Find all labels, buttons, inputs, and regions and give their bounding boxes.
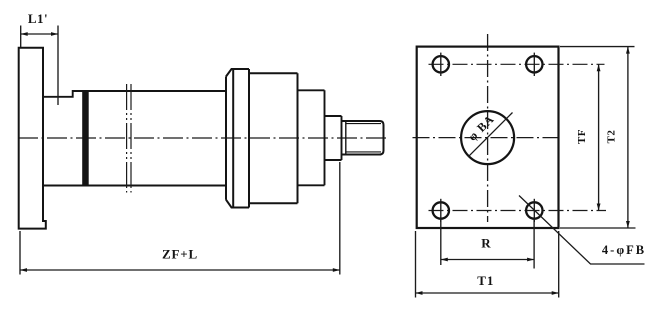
dimension T1 (416, 231, 559, 298)
seal band (solid black) (82, 90, 89, 186)
stroke position dashed lines (127, 84, 131, 193)
dimension L1' (21, 26, 58, 106)
bore diameter leader line (468, 113, 512, 157)
dimension TF (598, 64, 600, 210)
svg-text:4-φFB: 4-φFB (602, 243, 646, 257)
svg-text:T2: T2 (606, 130, 618, 144)
svg-text:L1': L1' (28, 11, 48, 26)
bolt hole bottom-left (433, 199, 449, 222)
dimension R (441, 219, 534, 269)
cylinder head collar (226, 69, 249, 208)
bore circle φBA (461, 111, 514, 164)
leader line for bolt holes (519, 196, 645, 265)
head main block (249, 73, 298, 203)
plate horizontal centerline (413, 137, 563, 139)
threaded rod end (342, 121, 384, 155)
svg-text:TF: TF (576, 129, 588, 144)
rod shoulder (325, 116, 342, 160)
flange plate outline (417, 47, 559, 228)
head front boss (298, 90, 325, 185)
bolt hole top-left (433, 53, 449, 76)
bolt hole centerline top (429, 63, 605, 65)
dimension ZF+L (20, 162, 340, 275)
svg-text:ZF+L: ZF+L (162, 247, 198, 262)
dimension T2 (560, 47, 636, 228)
plate vertical centerline (487, 34, 489, 222)
bolt hole top-right (526, 53, 542, 76)
centerline of cylinder axis (18, 137, 389, 139)
mounting flange (side view) (19, 48, 46, 229)
svg-text:T1: T1 (477, 273, 494, 288)
bolt hole centerline bottom (429, 210, 607, 212)
bolt hole bottom-right (526, 199, 542, 222)
label φBA (465, 112, 497, 144)
flange pilot step (43, 91, 226, 186)
svg-text:R: R (481, 236, 491, 251)
